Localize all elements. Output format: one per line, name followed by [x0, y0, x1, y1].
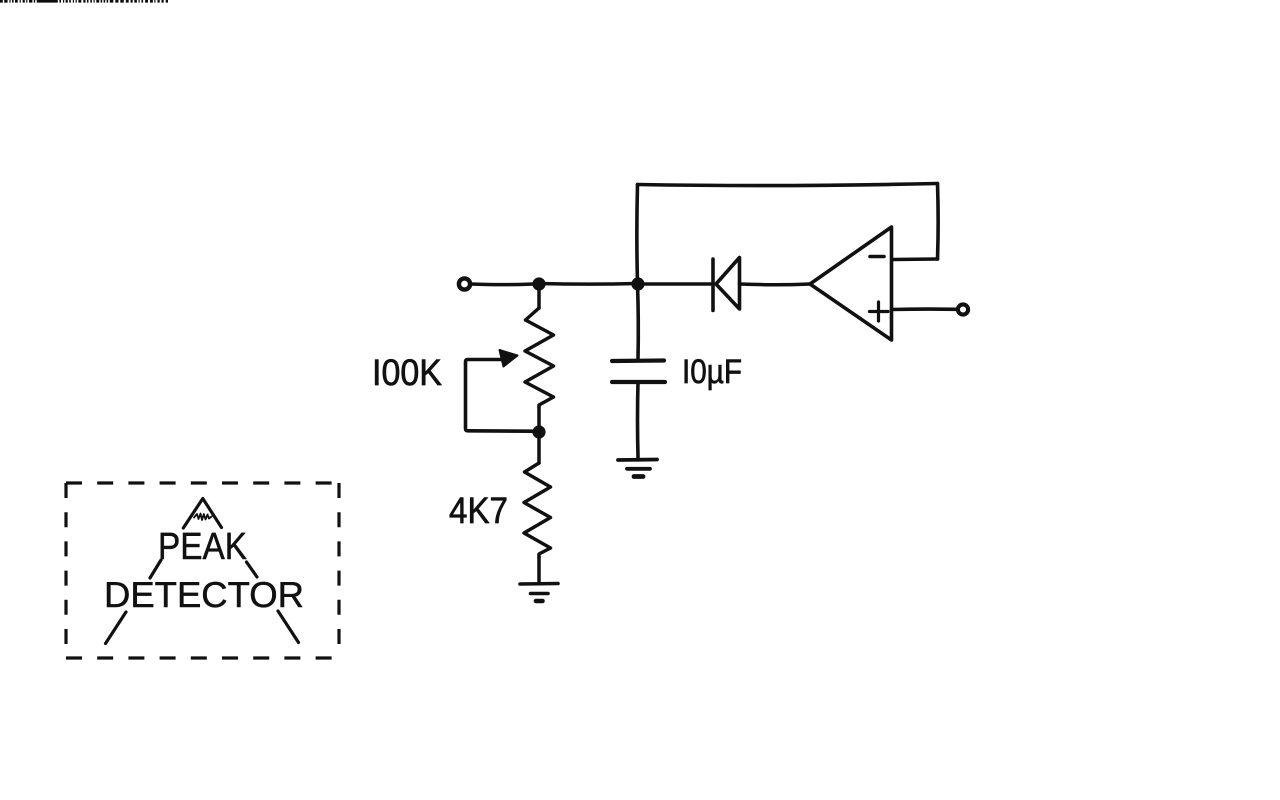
svg-text:DETECTOR: DETECTOR — [104, 574, 304, 615]
mountain snow squiggle — [194, 514, 212, 521]
potentiometer R1 wiper arrowhead — [500, 350, 518, 367]
capacitor C1: top lead from node B — [636, 284, 640, 360]
wire: input terminal to node A — [470, 282, 533, 286]
diode D1 triangle (pointing left) — [716, 258, 740, 310]
ground symbol under R2 — [520, 584, 558, 602]
node B junction dot — [631, 277, 644, 290]
svg-text:I0µF: I0µF — [682, 353, 742, 391]
resistor R2 4K7: bottom lead — [537, 557, 541, 581]
op-amp U1 triangle (pointing left) — [810, 227, 892, 340]
node A junction dot — [532, 277, 545, 290]
mountain slope segment lower-left — [106, 612, 127, 644]
op-amp U1 non-inverting input label (plus) — [870, 302, 889, 321]
wire: feedback top rail — [638, 184, 938, 186]
title box dashed border — [66, 483, 339, 658]
wiper junction dot — [532, 425, 545, 438]
capacitor C1: top plate — [612, 358, 664, 363]
potentiometer R1 wiper arrow shaft — [466, 360, 533, 432]
capacitor C1: bottom plate — [612, 380, 665, 384]
wire: op-amp non-inverting input to output terminal — [892, 307, 957, 311]
wire: node B to diode cathode — [638, 282, 712, 286]
clipped attribution text line at top edge — [0, 0, 168, 3]
mountain slope segment upper-right — [247, 562, 258, 577]
wire: diode anode to op-amp output — [740, 282, 811, 286]
output terminal (open circle) — [958, 304, 968, 314]
wire: feedback into inverting input — [893, 257, 938, 261]
capacitor C1: bottom lead — [636, 382, 640, 457]
svg-text:4K7: 4K7 — [449, 490, 508, 531]
mountain slope segment upper-left — [150, 560, 161, 578]
mountain peak icon — [183, 499, 221, 529]
potentiometer R1 100K: top lead — [537, 284, 541, 309]
resistor R2 4K7: zigzag body — [524, 463, 551, 557]
wire: node A to node B — [539, 282, 637, 286]
potentiometer R1 100K: bottom lead — [537, 407, 541, 426]
svg-text:I00K: I00K — [372, 352, 442, 393]
resistor R2 4K7: top lead — [537, 432, 541, 463]
ground symbol under C1 — [618, 460, 657, 477]
diode D1 cathode bar — [711, 259, 715, 311]
wire: node B up to feedback rail — [635, 185, 639, 284]
svg-text:PEAK: PEAK — [158, 526, 247, 568]
input terminal (open circle) — [459, 278, 470, 289]
potentiometer R1 100K: zigzag body — [525, 308, 554, 407]
wire: feedback right drop — [936, 184, 940, 260]
mountain slope segment lower-right — [278, 611, 299, 643]
op-amp U1 inverting input label (minus) — [870, 255, 884, 259]
